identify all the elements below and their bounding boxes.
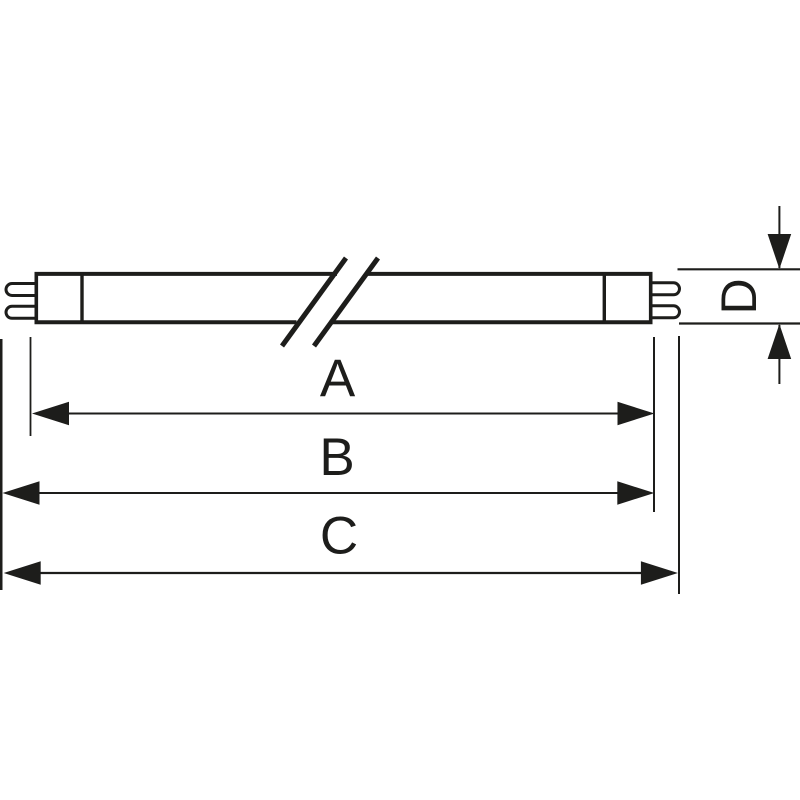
dimension line D lower segment <box>778 325 780 384</box>
svg-text:A: A <box>320 349 356 408</box>
right cap separator <box>603 272 606 324</box>
arrowhead B right <box>617 481 654 504</box>
extension line right cap (A,B) <box>653 337 655 512</box>
dimension line B <box>10 492 648 494</box>
svg-text:C: C <box>320 507 358 566</box>
left cap separator <box>80 272 83 324</box>
break slash 2 <box>314 258 378 346</box>
extension line left cap (A) <box>30 337 32 436</box>
right lower pin <box>651 306 680 318</box>
arrowhead D bottom (points up) <box>768 324 792 359</box>
arrowhead A right <box>618 402 655 425</box>
tube bottom line left segment <box>35 320 297 324</box>
arrowhead B left <box>3 481 40 504</box>
svg-text:D: D <box>711 278 767 314</box>
left upper pin <box>6 284 36 296</box>
extension line tube top (D) <box>678 268 800 270</box>
break slash 1 <box>282 258 346 346</box>
tube top line left segment <box>35 272 338 276</box>
tube top line right segment <box>368 272 653 276</box>
extension line left pins (B,C) <box>0 339 3 590</box>
dimension line A <box>40 413 648 415</box>
extension line right pins (C) <box>678 336 680 594</box>
extension line tube bottom (D) <box>679 322 800 324</box>
arrowhead C right <box>641 561 678 584</box>
dimension line C <box>11 572 671 574</box>
arrowhead A left <box>32 402 69 425</box>
arrowhead D top (points down) <box>768 234 792 269</box>
right upper pin <box>651 283 680 295</box>
svg-text:B: B <box>319 428 354 487</box>
tube left cap face <box>34 272 38 324</box>
left lower pin <box>6 306 36 318</box>
arrowhead C left <box>4 561 41 584</box>
tube right cap face <box>649 272 653 324</box>
dimension line D upper segment <box>778 206 780 268</box>
tube bottom line right segment <box>330 320 653 324</box>
